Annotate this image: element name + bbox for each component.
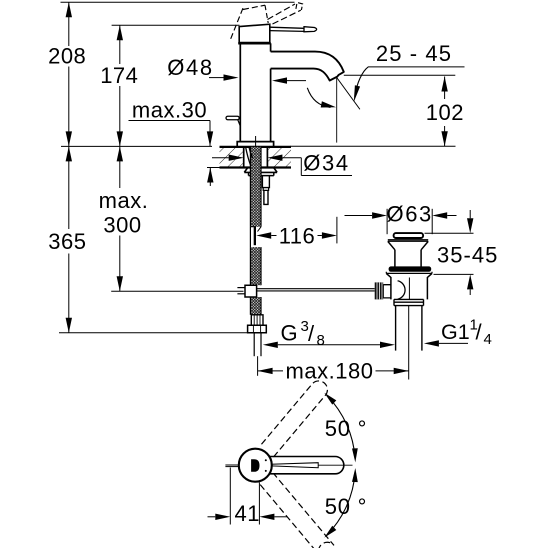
svg-text:/: /: [476, 320, 483, 345]
svg-text:174: 174: [100, 63, 138, 88]
svg-text:208: 208: [48, 44, 86, 69]
svg-text:35-45: 35-45: [437, 243, 498, 268]
svg-text:max.180: max.180: [286, 359, 374, 384]
svg-text:102: 102: [426, 100, 464, 125]
svg-text:50 °: 50 °: [325, 494, 368, 519]
svg-text:50 °: 50 °: [325, 416, 368, 441]
svg-text:Ø48: Ø48: [167, 55, 213, 80]
svg-text:/: /: [308, 321, 315, 346]
svg-text:4: 4: [484, 331, 492, 348]
svg-text:300: 300: [103, 213, 141, 238]
svg-text:max.: max.: [99, 188, 149, 213]
svg-text:max.30: max.30: [132, 98, 207, 123]
svg-text:116: 116: [279, 224, 316, 249]
svg-text:Ø34: Ø34: [303, 151, 349, 176]
svg-text:G: G: [281, 321, 298, 346]
svg-text:G1: G1: [441, 320, 470, 344]
svg-text:25 - 45: 25 - 45: [376, 41, 452, 66]
svg-text:41: 41: [235, 501, 260, 526]
svg-text:Ø63: Ø63: [387, 202, 433, 227]
svg-text:8: 8: [317, 332, 325, 349]
svg-text:365: 365: [48, 229, 86, 254]
